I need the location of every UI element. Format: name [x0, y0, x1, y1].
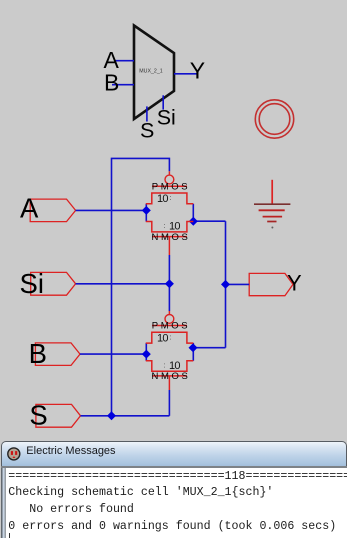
- wire T2 left terminal stub: [145, 343, 147, 361]
- pin B (input export): [29, 338, 80, 369]
- svg-text:Si: Si: [157, 106, 176, 130]
- svg-text:Y: Y: [287, 270, 302, 295]
- message line 1: [8, 470, 347, 483]
- svg-text:10: 10: [169, 221, 180, 233]
- message text area: [6, 468, 347, 538]
- svg-text:MUX_2_1: MUX_2_1: [139, 69, 162, 75]
- svg-text::: :: [170, 334, 172, 341]
- transistor P2 (PMOS of bottom transmission gate): [146, 311, 194, 344]
- window icon: [1, 447, 25, 469]
- separator below title bar: [1, 466, 347, 468]
- window title bar: [1, 441, 347, 466]
- transistor N1 (NMOS of top transmission gate): [146, 221, 194, 255]
- svg-text:B: B: [104, 70, 119, 96]
- window left frame: [1, 468, 6, 538]
- svg-text:PMOS: PMOS: [152, 321, 190, 332]
- wire T2 output horizontal: [193, 347, 226, 349]
- text caret: [9, 533, 10, 538]
- junction node T1 out: [189, 217, 198, 226]
- svg-text:10: 10: [157, 332, 168, 344]
- svg-text:NMOS: NMOS: [152, 371, 191, 382]
- svg-text:10: 10: [157, 193, 168, 205]
- message line 3: [8, 503, 134, 516]
- pin Si (input export): [20, 268, 76, 299]
- svg-text:Si: Si: [20, 268, 44, 299]
- message line 4: [8, 520, 336, 533]
- wire B to T2 source: [80, 353, 146, 355]
- wire T1 output horizontal: [193, 220, 225, 222]
- svg-text:Y: Y: [190, 57, 205, 83]
- wire Si branch down to T2 pmos gate: [168, 284, 170, 311]
- wire S branch to T2 nmos gate: [168, 390, 170, 416]
- wire symbol input A: [115, 60, 134, 62]
- wire S bus horizontal: [81, 415, 170, 417]
- svg-text:A: A: [20, 192, 39, 223]
- svg-text:B: B: [29, 338, 47, 369]
- wire output rail vertical right: [225, 221, 227, 348]
- junction node S bus: [107, 411, 116, 420]
- junction node A-T1: [142, 206, 151, 215]
- wire T1 left terminal stub: [145, 204, 147, 222]
- wire T1 right terminal stub: [192, 204, 194, 222]
- junction node Si gates: [165, 279, 174, 288]
- window title text: [26, 446, 115, 457]
- svg-text:S: S: [29, 400, 47, 431]
- svg-text::: :: [164, 363, 166, 370]
- cell center marker (double circle): [255, 100, 293, 138]
- wire Si to gates junction: [76, 283, 170, 285]
- svg-text:PMOS: PMOS: [152, 181, 190, 192]
- ground symbol: [254, 180, 290, 229]
- transistor N2 (NMOS of bottom transmission gate): [146, 360, 194, 390]
- wire T2 right terminal stub: [192, 343, 194, 361]
- svg-text::: :: [170, 195, 172, 202]
- junction node T2 out: [189, 343, 198, 352]
- pin A (input export): [20, 192, 76, 223]
- message line 2: [8, 486, 273, 499]
- wire S rail vertical left: [112, 158, 170, 415]
- wire Si branch up to T1 nmos gate: [168, 255, 170, 284]
- svg-text::: :: [164, 223, 166, 230]
- junction node B-T2: [142, 350, 151, 359]
- wire symbol select Si: [162, 95, 164, 109]
- wire A to T1 source: [76, 209, 147, 211]
- svg-text:10: 10: [169, 360, 180, 372]
- wire symbol input B: [112, 84, 134, 86]
- svg-text:S: S: [140, 118, 154, 142]
- svg-text:NMOS: NMOS: [152, 232, 191, 243]
- wire symbol output Y: [174, 73, 197, 75]
- transistor P1 (PMOS of top transmission gate): [146, 171, 194, 205]
- mux symbol U1 (MUX_2_1 trapezoid): [134, 26, 174, 120]
- wire symbol select S: [146, 106, 148, 121]
- pin Y (output export): [249, 270, 302, 295]
- wire Y tap: [226, 283, 250, 285]
- pin S (input export): [29, 400, 80, 431]
- junction node Y tap: [221, 280, 230, 289]
- messages window: [0, 440, 347, 538]
